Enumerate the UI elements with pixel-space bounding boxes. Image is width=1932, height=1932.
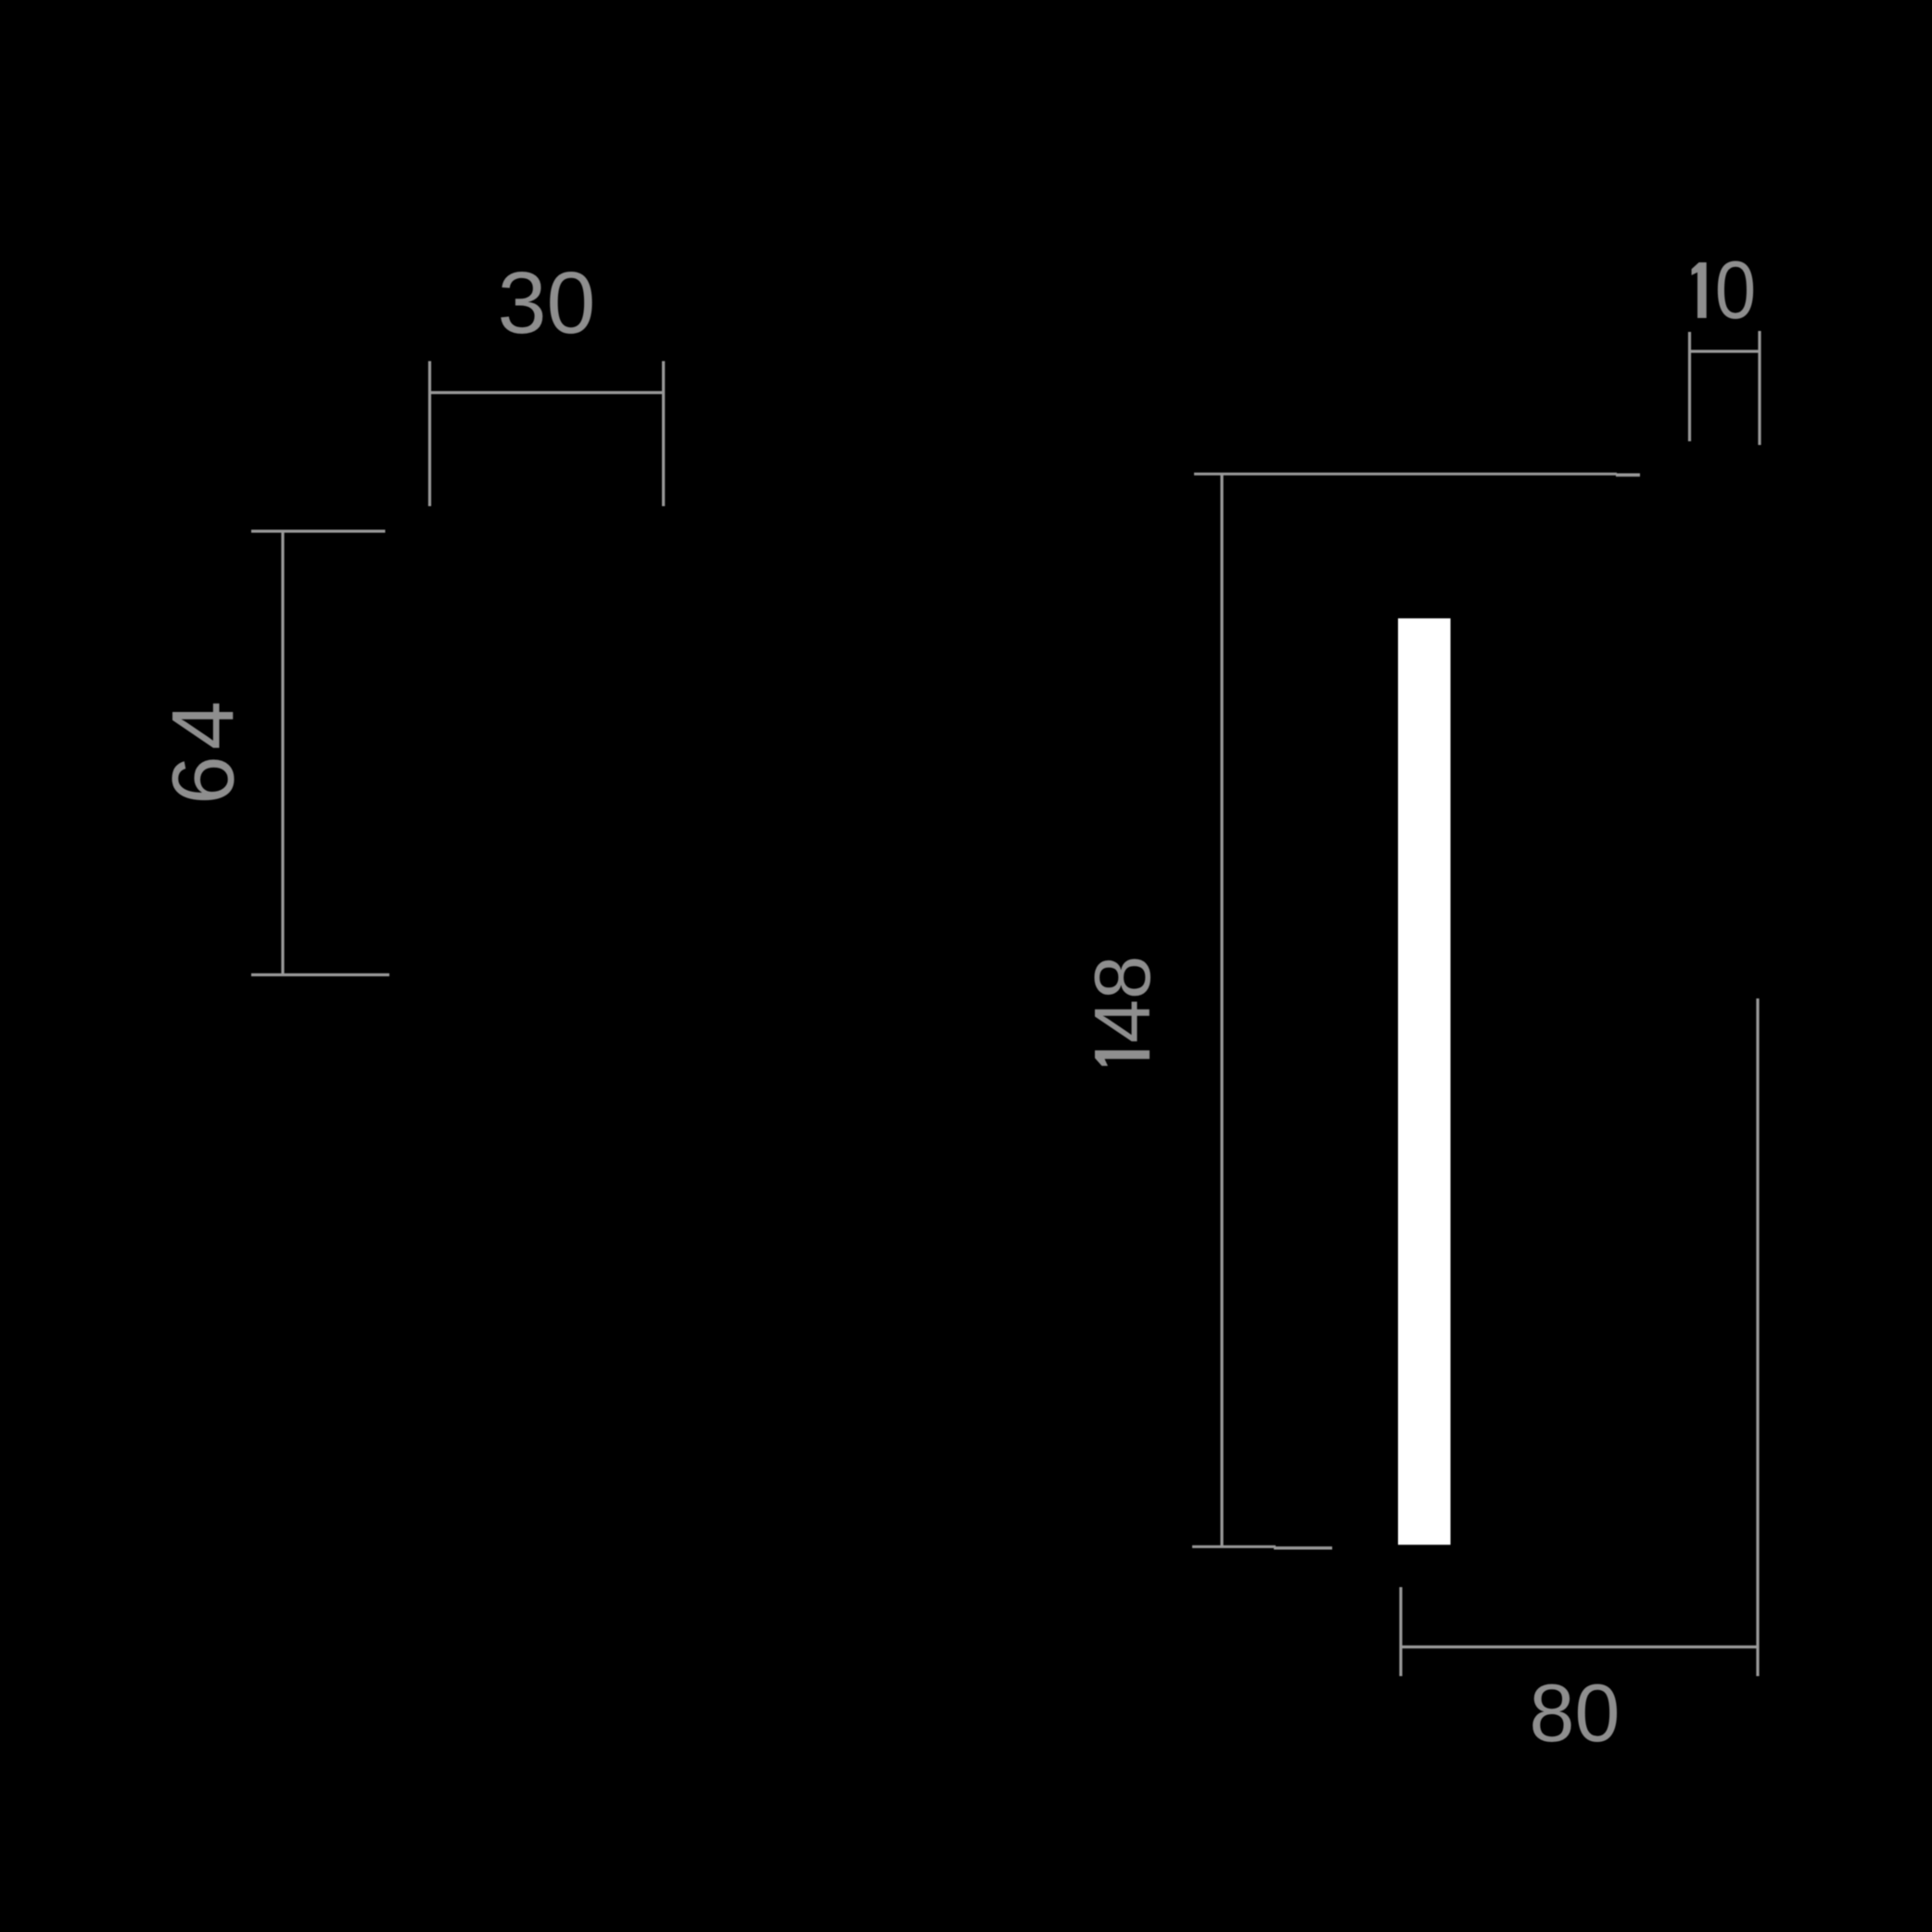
extension cap 64 bottom [251,973,389,976]
svg-text:48: 48 [1079,956,1167,1044]
extension tick 80 right [1756,998,1759,1676]
LED light bar (white) [1398,618,1451,1544]
dimension line 10 [1690,350,1760,352]
extension cap 148 bottom segment a [1192,1545,1276,1548]
extension cap 148 bottom segment b [1274,1546,1332,1549]
extension tick 30 left [428,362,431,507]
svg-text:0: 0 [1715,244,1757,336]
extension tick 10 left [1688,332,1691,441]
dimension text 10 digit 1 (drawn) [1692,262,1707,318]
dimension line 64 [281,531,284,975]
svg-text:30: 30 [498,254,596,352]
extension tick 80 left [1399,1587,1402,1676]
extension tick 10 right [1758,331,1760,445]
dimension text 148 digit 1 (drawn, rotated) [1095,1050,1150,1066]
dimension line 80 [1401,1646,1758,1648]
extension cap 148 top segment b [1616,473,1640,477]
svg-text:80: 80 [1530,1667,1621,1759]
extension cap 64 top [251,529,386,532]
dimension line 30 [430,391,664,394]
dimension line 148 [1220,475,1223,1548]
extension tick 30 right [662,362,665,507]
extension cap 148 top segment a [1194,473,1617,476]
